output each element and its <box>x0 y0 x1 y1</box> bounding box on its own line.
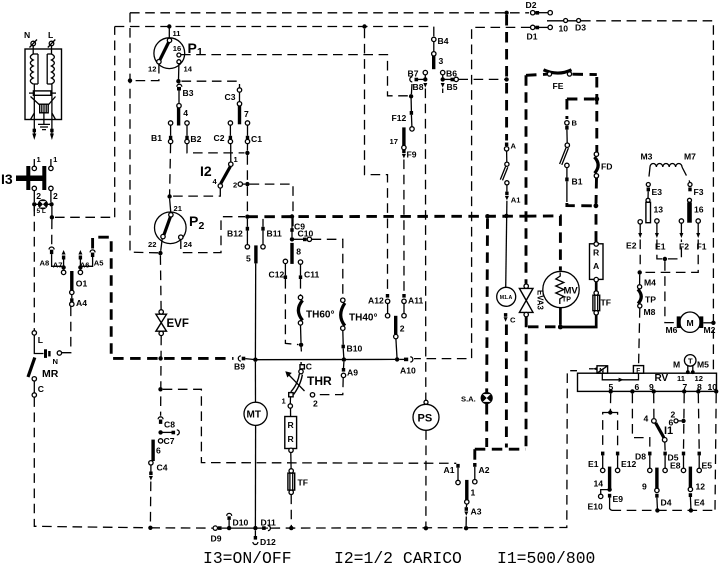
lamp node right <box>49 202 53 206</box>
MR plug contact <box>44 349 47 358</box>
terminal C8 <box>158 417 163 420</box>
wire node down to I2-2 node <box>246 155 248 182</box>
svg-text:THR: THR <box>307 374 332 388</box>
terminal A6 <box>78 250 82 255</box>
node A8/A7 <box>61 265 65 269</box>
lamp SA <box>485 218 489 392</box>
bar 14 <box>608 467 611 489</box>
svg-text:R: R <box>593 248 600 258</box>
motor MV <box>543 271 579 307</box>
filter resistor <box>33 91 51 95</box>
node RV7 <box>682 389 686 393</box>
wire dashed to right riser <box>55 216 115 218</box>
switch I2 lever <box>221 167 231 184</box>
terminal D12 <box>254 530 256 536</box>
terminal B10 <box>342 330 344 344</box>
contact bar 7 <box>238 106 241 125</box>
wire bold bus y449 <box>475 448 526 451</box>
svg-text:RV: RV <box>655 373 669 384</box>
svg-text:M6: M6 <box>666 325 678 335</box>
wire D1 left to A10 riser <box>414 27 531 358</box>
node E9 <box>607 487 611 491</box>
node B12 <box>245 215 249 219</box>
svg-text:FD: FD <box>601 162 612 172</box>
wire E2/F1 elbow <box>640 240 698 273</box>
svg-text:E2: E2 <box>626 241 637 251</box>
node branch x364.5 <box>362 24 366 28</box>
svg-text:A5: A5 <box>94 259 104 268</box>
wire I3 to A8 <box>51 220 53 247</box>
terminal D5 <box>663 452 666 456</box>
svg-text:M8: M8 <box>644 307 656 317</box>
node C10 <box>290 237 294 241</box>
filter right coil <box>47 46 51 84</box>
svg-text:B11: B11 <box>267 229 283 239</box>
wire BOLD B9 path from A5 <box>93 237 234 358</box>
wire to C3 <box>182 81 240 87</box>
contact bar O1 <box>70 271 73 291</box>
svg-text:6: 6 <box>156 446 161 456</box>
valve EVA3 <box>525 75 528 283</box>
terminal B9 <box>238 356 241 361</box>
svg-text:C10: C10 <box>298 228 314 238</box>
wire bottom dashed of block <box>612 509 716 511</box>
wire bus B9 solid <box>245 359 397 360</box>
wire C11 to TH60 <box>300 279 302 295</box>
node C1/B2 <box>245 151 249 155</box>
wire L out <box>51 97 53 135</box>
node top bold riser <box>504 11 508 15</box>
contact C2 <box>228 121 232 125</box>
contact C11 <box>298 260 302 264</box>
contact C12 <box>283 259 287 263</box>
resistor RA <box>590 244 604 280</box>
terminal E3 <box>646 183 650 187</box>
terminal E8 <box>682 452 685 456</box>
wire I3-2L to MR <box>33 207 35 331</box>
svg-text:B12: B12 <box>227 229 243 239</box>
node on bottom row <box>148 526 152 530</box>
svg-text:A12: A12 <box>368 296 384 306</box>
svg-text:MT: MT <box>247 410 261 421</box>
svg-text:B: B <box>572 119 578 128</box>
svg-text:2: 2 <box>53 191 58 201</box>
svg-text:E10: E10 <box>588 502 604 512</box>
svg-text:MV: MV <box>564 286 579 297</box>
node C8/C7 <box>158 430 162 434</box>
SECTION: main dashed borders <box>93 0 714 372</box>
contact FD <box>595 77 598 152</box>
lamp node left <box>32 202 36 206</box>
svg-text:2: 2 <box>36 191 41 201</box>
wire 24 elbow to B12 riser <box>181 217 245 253</box>
SECTION: P1 programmer <box>128 24 409 226</box>
wire I2-4 to P2 node <box>172 188 220 196</box>
terminal B5 <box>444 78 453 80</box>
terminal F3 <box>688 183 692 187</box>
svg-text:14: 14 <box>184 65 193 74</box>
wire RV6 to D8 <box>632 394 649 451</box>
wire RV5 bracket <box>609 394 611 411</box>
wire E1/F2 elbow <box>657 240 682 259</box>
wire bold FE top <box>526 74 547 75</box>
terminal L <box>49 41 54 46</box>
svg-text:I3=ON/OFF: I3=ON/OFF <box>203 549 292 567</box>
bar 12 <box>689 467 692 487</box>
svg-text:I2: I2 <box>200 163 212 179</box>
P2 contact 24 <box>179 235 183 239</box>
wire bar5 to bus <box>254 263 256 358</box>
I3 terminal 2 left <box>32 186 36 190</box>
terminal E9 <box>608 494 611 498</box>
node B6/B5 <box>441 77 445 81</box>
bar 9 <box>655 468 658 489</box>
node A6/A5 <box>78 265 82 269</box>
ground <box>38 113 50 130</box>
wire RA up to FD <box>595 208 598 242</box>
svg-text:M7: M7 <box>684 152 696 162</box>
svg-text:C3: C3 <box>225 92 236 102</box>
wire B8 down to PS <box>424 89 426 404</box>
inner bracket <box>602 373 638 380</box>
svg-text:M: M <box>673 360 680 370</box>
contact bar 3 <box>432 56 435 69</box>
terminal D11 <box>262 526 266 530</box>
contact B12 <box>246 227 249 231</box>
wire B5 right to bold riser <box>458 78 504 80</box>
contact B1 <box>168 121 172 125</box>
svg-text:C2: C2 <box>214 133 225 143</box>
wire bold riser x506.7 top <box>505 15 508 141</box>
svg-text:P: P <box>189 213 198 229</box>
svg-text:TH60°: TH60° <box>306 310 334 321</box>
wire I2-1 to C2 <box>230 144 232 162</box>
svg-text:R: R <box>288 420 295 430</box>
P1 contact 16 <box>177 53 181 57</box>
node F12 <box>409 94 413 98</box>
valve EVF <box>159 310 163 314</box>
node 22/EVF <box>158 251 162 255</box>
node I2-2 <box>245 182 249 186</box>
programmer P1 circle <box>154 38 185 69</box>
node B5 line joins <box>504 77 508 81</box>
contact A11 <box>402 294 405 298</box>
terminal D10 <box>227 526 231 530</box>
svg-text:3: 3 <box>439 56 444 66</box>
heater bar 16 <box>688 198 692 202</box>
node B10 on bus <box>342 357 346 361</box>
wire bold B branch <box>567 98 595 101</box>
svg-text:F9: F9 <box>407 150 417 160</box>
svg-text:C8: C8 <box>164 420 175 430</box>
svg-text:I2=1/2 CARICO: I2=1/2 CARICO <box>334 549 462 567</box>
wire C down left border <box>34 397 150 528</box>
terminal F12 <box>410 99 412 112</box>
svg-text:L: L <box>48 30 53 40</box>
svg-text:10: 10 <box>559 24 569 34</box>
node E1F2 <box>663 257 667 261</box>
svg-text:B9: B9 <box>234 362 245 372</box>
terminal N <box>31 41 36 46</box>
wire EVF down to C8 <box>160 336 163 416</box>
svg-text:F3: F3 <box>694 187 704 197</box>
wire 12 to left riser <box>133 64 159 81</box>
wire B1 bold elbow <box>567 203 594 206</box>
svg-text:E3: E3 <box>652 187 663 197</box>
contact C1 <box>245 121 249 125</box>
SECTION: I3 switch <box>1 27 115 331</box>
wire B1 down to P2 node <box>170 144 171 195</box>
svg-text:M2: M2 <box>704 325 716 335</box>
svg-text:R: R <box>288 434 295 444</box>
motor M <box>680 312 700 332</box>
svg-text:5 L: 5 L <box>37 208 46 215</box>
wire F9 down to A11 <box>403 160 405 294</box>
svg-text:2: 2 <box>199 220 205 232</box>
terminal E10 <box>601 490 610 495</box>
svg-text:TP: TP <box>645 295 656 305</box>
contact A <box>505 143 508 147</box>
node MV bottom <box>558 325 563 330</box>
node TF bottom <box>289 526 293 530</box>
wire TF down <box>290 495 292 527</box>
svg-text:A1: A1 <box>511 196 521 205</box>
terminal A1 <box>506 185 508 192</box>
filter left coil <box>33 46 38 84</box>
wire I2-2 node down to B12 node <box>246 186 248 214</box>
svg-text:A8: A8 <box>40 259 50 268</box>
terminal A7 <box>62 250 66 255</box>
coil F <box>633 366 643 374</box>
SECTION: right power section <box>390 36 613 530</box>
terminal A10 <box>399 358 404 360</box>
switch I3 body <box>16 176 44 182</box>
contact B2 <box>185 121 189 125</box>
svg-text:B3: B3 <box>183 88 194 98</box>
wire C12 elbow to TH60 bottom <box>285 279 298 345</box>
pressure switch PS <box>413 404 439 430</box>
I2 contact 2 <box>238 182 242 186</box>
svg-text:E1: E1 <box>588 459 599 469</box>
P2 blade <box>164 216 171 236</box>
svg-text:A3: A3 <box>471 507 482 517</box>
svg-text:B1: B1 <box>572 177 583 187</box>
node C9 riser <box>290 214 294 218</box>
svg-text:T: T <box>688 357 693 366</box>
resistor R <box>285 417 297 449</box>
wire EVF line down <box>159 255 162 309</box>
node PS bottom <box>424 526 428 530</box>
terminal E4 <box>688 487 692 491</box>
I3 terminal 2 right <box>49 186 53 190</box>
wire left outer riser x130 <box>130 13 158 253</box>
svg-text:C1: C1 <box>251 134 262 144</box>
svg-text:TF: TF <box>601 298 612 308</box>
node TH60/C12 <box>299 343 303 347</box>
terminal B8 arc <box>417 78 425 80</box>
fuse TF left <box>289 469 293 473</box>
svg-text:4: 4 <box>644 414 649 424</box>
svg-text:C7: C7 <box>164 436 175 446</box>
node E2F1/M4 <box>638 270 642 274</box>
svg-text:16: 16 <box>694 205 704 215</box>
terminal A8 <box>49 247 54 250</box>
svg-text:D9: D9 <box>211 534 222 544</box>
node 14/B3 <box>176 79 180 83</box>
svg-text:D12: D12 <box>260 537 276 547</box>
wire RV10 down <box>715 394 716 511</box>
svg-text:1: 1 <box>197 46 203 58</box>
node on x130 riser <box>128 78 132 82</box>
svg-text:M4: M4 <box>644 278 656 288</box>
wire PS down <box>425 430 427 526</box>
node MT bottom <box>253 526 257 530</box>
wire A1 to M1A <box>506 201 507 288</box>
svg-text:D3: D3 <box>575 23 586 33</box>
I3 terminal 1 left <box>33 159 35 166</box>
svg-text:FE: FE <box>553 81 564 91</box>
svg-text:D11: D11 <box>261 518 277 528</box>
node RV9 <box>652 389 656 393</box>
node I3-2R junction <box>50 215 54 219</box>
node RV6 <box>630 389 634 393</box>
filter box outline <box>25 49 62 120</box>
thermostat TH60 <box>298 295 302 299</box>
wire C10 to TH40 <box>312 239 343 298</box>
node SA riser <box>485 214 489 218</box>
terminal L of MR <box>32 331 36 335</box>
svg-text:B7: B7 <box>408 69 419 79</box>
svg-text:C: C <box>38 384 44 394</box>
svg-text:9: 9 <box>642 482 647 492</box>
wire RV9 to I1 <box>653 394 655 418</box>
wire D3 to right border <box>581 21 713 372</box>
svg-text:2: 2 <box>400 324 405 334</box>
relay THR <box>300 362 302 365</box>
node A3 bottom <box>464 526 468 530</box>
svg-text:7: 7 <box>244 109 249 119</box>
wire EVA3 to bold corner <box>525 317 528 447</box>
terminal B1 of contact B <box>566 168 568 178</box>
svg-text:F12: F12 <box>392 113 407 123</box>
svg-text:C11: C11 <box>304 270 320 280</box>
bar 1 <box>465 480 468 500</box>
svg-text:22: 22 <box>148 240 156 249</box>
node B7/B8 <box>423 77 427 81</box>
contact bar 2 <box>394 316 397 335</box>
wire M1A-C bold down <box>505 325 508 448</box>
terminal B4 <box>432 37 436 41</box>
terminal C10 <box>292 238 303 240</box>
svg-text:A1: A1 <box>444 465 455 475</box>
svg-text:B8: B8 <box>413 82 424 92</box>
svg-text:B4: B4 <box>438 36 449 46</box>
wire TH60 bottom <box>300 325 303 343</box>
contact bar 8 <box>290 243 293 264</box>
wire 22 down <box>161 239 163 251</box>
svg-text:2: 2 <box>313 399 318 409</box>
svg-text:B10: B10 <box>347 344 363 354</box>
wire A2 stub <box>473 449 476 462</box>
contacts E2 E1 <box>638 220 642 224</box>
pilot lamp <box>34 203 51 205</box>
wire bold solid to TF <box>558 314 596 328</box>
node RV5 <box>609 389 613 393</box>
svg-text:L: L <box>38 335 43 345</box>
terminal A2 <box>473 463 476 467</box>
svg-text:N: N <box>53 357 58 366</box>
wire 16 to right (to F12 area) <box>181 55 409 96</box>
terminal D9 <box>213 526 217 530</box>
node A10 <box>395 357 399 361</box>
svg-text:MR: MR <box>42 368 59 380</box>
motor M1A <box>497 287 516 306</box>
wire solid D-row <box>222 527 268 529</box>
svg-text:C: C <box>306 362 312 372</box>
wire bar2 to bus <box>396 339 397 358</box>
wire plug to A4 riser <box>62 307 71 353</box>
terminal A4 <box>71 295 73 299</box>
svg-text:17: 17 <box>390 137 398 146</box>
fuse TF right <box>594 291 598 295</box>
node MT top on bus <box>253 358 257 362</box>
terminal A9 <box>343 362 345 368</box>
svg-text:16: 16 <box>173 44 181 53</box>
contact bar 6 <box>151 440 154 461</box>
contact A12 <box>386 294 389 298</box>
SECTION: filter unit top-left <box>24 30 62 140</box>
svg-text:D4: D4 <box>661 498 672 508</box>
programmer P2 circle <box>155 212 187 244</box>
timer RV box <box>578 373 717 391</box>
svg-text:11: 11 <box>173 29 182 38</box>
SECTION: MR switch <box>28 307 150 528</box>
node branch to A1 dashed row <box>158 387 162 391</box>
contact FE <box>544 70 572 73</box>
svg-text:A10: A10 <box>400 366 416 376</box>
wire N out <box>33 97 35 135</box>
svg-text:A4: A4 <box>76 298 87 308</box>
SECTION: center contacts <box>227 219 424 531</box>
SECTION: A-terminals and O1 <box>40 247 105 308</box>
svg-text:C12: C12 <box>269 270 285 280</box>
contact bar 17 <box>402 127 405 145</box>
wire riser x=114.7 <box>114 27 116 218</box>
wire C4 down <box>149 482 151 526</box>
terminal E12 <box>616 452 619 456</box>
I3 terminal 1 right <box>50 159 52 166</box>
coil N <box>597 366 608 373</box>
svg-text:B1: B1 <box>151 133 162 143</box>
wire A9 elbow to THR2 <box>315 378 343 395</box>
filter spark gap <box>31 97 56 120</box>
svg-text:E9: E9 <box>613 494 624 504</box>
svg-text:2: 2 <box>233 181 237 190</box>
node A1 on bold bus <box>504 214 508 218</box>
svg-text:M3: M3 <box>641 152 653 162</box>
wire down to M6 <box>665 261 676 323</box>
wire RV8 to E5 <box>697 394 700 451</box>
svg-text:5: 5 <box>246 254 251 264</box>
node on B9 line <box>158 356 162 360</box>
node 11 <box>167 24 171 28</box>
svg-text:S.A.: S.A. <box>461 395 476 404</box>
terminal D4 <box>655 488 659 492</box>
wire SA down to bold bus <box>485 404 488 447</box>
svg-text:A: A <box>511 142 517 151</box>
terminal C9 <box>290 228 293 232</box>
svg-text:E4: E4 <box>694 498 705 508</box>
